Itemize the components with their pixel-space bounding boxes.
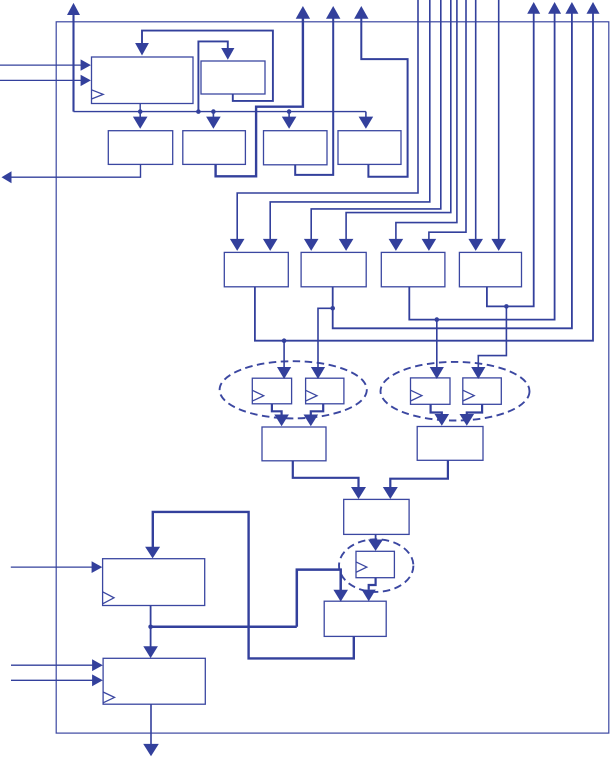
clock triangle of F3: [411, 390, 422, 401]
flip-flop F5: [356, 551, 394, 577]
arrow F1 to A1: [274, 415, 289, 427]
register R6: [103, 658, 205, 704]
wire: M4 output to top arrow r1: [487, 14, 534, 307]
box B (combiner): [344, 499, 409, 534]
node: junction line A to L2: [211, 109, 216, 114]
arrow into IR input 1: [81, 59, 91, 70]
wire: F4 output into A2: [467, 404, 482, 414]
wire: control line c2 from top into M1 input 2: [270, 0, 430, 239]
arrow into IR top: [135, 43, 149, 56]
wire: box C feedback loop to R5 input: [153, 512, 354, 659]
wire: stem into L2: [212, 112, 214, 117]
arrow into F2: [311, 367, 325, 379]
wire: line A horizontal distribution bus: [74, 111, 366, 113]
arrow into F4: [471, 367, 485, 379]
mux M3: [381, 252, 445, 286]
arrow into M4 input 1: [468, 239, 483, 251]
arrow A2 to B: [383, 487, 398, 499]
wire: branch M2 output down to F2: [318, 308, 333, 367]
arrow B to F5: [368, 540, 383, 551]
wire: A2 output into B: [390, 460, 448, 487]
wire: control line c3 from top into M2 input 1: [311, 0, 441, 239]
arrow F5 to C: [362, 590, 376, 602]
node: junction on M4 output: [504, 304, 509, 309]
flip-flop F2: [306, 378, 344, 404]
mux M2: [301, 252, 366, 286]
wire: control line c7 from top into M4 input 1: [475, 0, 477, 239]
wire: M2 output to top arrow r3: [333, 14, 572, 329]
arrow into M3 input 1: [389, 239, 404, 251]
wire: control line c1 from top into M1 input 1: [237, 0, 418, 239]
arrow up top r3: [565, 2, 578, 14]
dashed ellipse around flip-flop F5: [339, 539, 413, 592]
arrow into M2 input 1: [304, 239, 319, 251]
arrow into M2 input 2: [339, 239, 354, 251]
wire: F5 output into box C: [369, 578, 376, 590]
arrow into M1 input 2: [263, 239, 278, 251]
wire: L1 output to left exit: [11, 164, 141, 177]
decode register L3: [264, 131, 328, 165]
wire: branch M3 output down to F3: [436, 320, 438, 368]
wire: F1 output into A1: [272, 404, 282, 415]
clock triangle of R5: [103, 592, 114, 604]
node: junction on M3 output: [435, 317, 440, 322]
wire: branch M1 output down to F1: [283, 341, 285, 368]
arrow into L3: [282, 117, 297, 129]
decode register L1: [108, 131, 172, 165]
wire: control line c5 from top into M3 input 1: [396, 0, 457, 239]
arrow into R6 input 1: [92, 659, 103, 671]
wire: control line c4 from top into M2 input 2: [346, 0, 451, 239]
clock triangle of F2: [306, 390, 317, 401]
wire: stem into L1: [139, 112, 141, 117]
arrow up top (L3 output): [326, 6, 340, 19]
wire: stem into L3: [288, 112, 290, 117]
arrow into L2: [206, 117, 221, 129]
wire: control line c8 from top into M4 input 2: [498, 0, 500, 239]
register IR (big box top-left): [92, 57, 194, 104]
clock triangle of F5: [356, 562, 367, 572]
arrow R5 to R6: [143, 646, 158, 658]
arrow F4 to A2: [460, 414, 475, 426]
dashed ellipse around flip-flops F1 F2: [220, 361, 367, 418]
dashed ellipse around flip-flops F3 F4: [381, 362, 530, 421]
flip-flop F3: [411, 378, 451, 404]
wire: external input 1 into R6: [11, 664, 93, 666]
mux M4: [459, 252, 521, 286]
arrow into F3: [430, 367, 444, 379]
wire: branch M4 output down to F4: [478, 306, 506, 367]
wire: R5 branch up into box C input: [297, 570, 341, 627]
node: junction line A to L3: [287, 109, 292, 114]
clock triangle of R6: [103, 692, 114, 703]
decode register L4: [338, 131, 401, 165]
node: junction line A to U2 branch: [196, 109, 201, 114]
wire: external input into R5: [11, 566, 92, 568]
clock triangle of F4: [463, 390, 474, 401]
clock triangle of register IR: [92, 90, 104, 99]
arrow exiting bottom edge: [143, 744, 159, 756]
box U2 (small box right of IR): [201, 61, 265, 94]
mux M1: [224, 252, 288, 286]
wire: line A end bend into L4: [365, 112, 367, 117]
flip-flop F1: [252, 378, 291, 404]
node: junction on M1 output: [282, 338, 287, 343]
wire: A1 output into B: [293, 461, 359, 488]
arrow into U2: [221, 48, 234, 60]
wire: R5 output branch right: [151, 626, 297, 629]
wire: M3 output to top arrow r2: [409, 14, 554, 320]
wire: M1 output to top arrow r4: [255, 14, 593, 341]
arrow R5-branch to C: [333, 590, 348, 602]
decode register L2: [183, 131, 246, 165]
wire: external input 1 into IR: [0, 64, 81, 66]
arrow into L1: [133, 117, 148, 129]
arrow into F1: [277, 367, 291, 379]
wire: L2 output thick U up to top arrow 1: [216, 19, 303, 177]
node: junction on M2 output: [330, 306, 335, 311]
arrow into IR input 2: [81, 75, 91, 86]
wire: U2 output feedback to IR input: [142, 31, 273, 101]
arrow up top (L4 output): [354, 6, 368, 19]
wire: control line c6 from top into M3 input 2: [429, 0, 466, 239]
flip-flop F4: [463, 378, 502, 404]
arrow into R5: [92, 561, 103, 573]
wire: L4 output up to top arrow 3: [361, 19, 407, 177]
wire: R6 output exiting bottom: [150, 704, 152, 744]
wire: branch from line A up into U2 input: [198, 41, 227, 111]
adder A1: [262, 427, 326, 461]
wire: F2 output into A1: [311, 404, 323, 415]
arrow up top r2: [548, 2, 561, 14]
arrow F2 to A1: [304, 415, 319, 427]
node: junction on R5 output: [148, 625, 153, 630]
clock triangle of F1: [252, 390, 263, 401]
arrow up top (L2 output): [296, 6, 310, 19]
box C (output stage): [324, 601, 386, 636]
node: junction IR output on line A: [138, 109, 143, 114]
wire: external input 2 into IR: [0, 79, 81, 81]
arrow up top r4: [587, 2, 600, 14]
arrow into M4 input 2: [491, 239, 506, 251]
arrow into L4: [359, 117, 374, 129]
arrow F3 to A2: [435, 414, 450, 426]
wire: thick vertical bus with top arrow, feeds line A: [72, 15, 74, 112]
arrow up at top-left bus: [67, 3, 80, 15]
wire: external input 2 into R6: [11, 679, 93, 681]
register R5: [103, 559, 205, 606]
arrow A1 to B: [351, 487, 366, 499]
arrow into M1 input 1: [230, 239, 245, 251]
adder A2: [417, 427, 483, 461]
arrow up top r1: [527, 2, 540, 14]
arrow into M3 input 2: [422, 239, 437, 251]
arrow into R6 input 2: [92, 674, 103, 686]
wire: B output into F5: [375, 534, 377, 539]
wire: L3 output up to top arrow 2: [295, 19, 333, 175]
wire: IR output tab to line A: [139, 104, 141, 112]
arrow loop into R5 top: [145, 547, 160, 559]
arrow exiting left edge: [2, 171, 12, 183]
wire: R5 output down to R6: [150, 606, 152, 647]
wire: F3 output into A2: [431, 404, 442, 414]
